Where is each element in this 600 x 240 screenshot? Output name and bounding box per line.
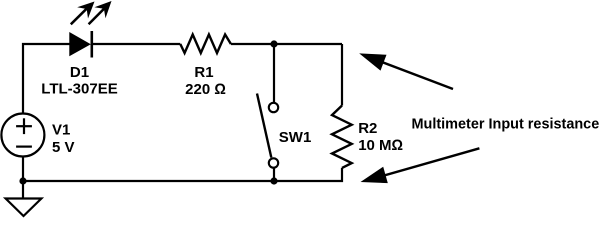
V1 plus sign xyxy=(16,118,32,134)
wire right branch top (corner down to R2) xyxy=(341,44,343,106)
node junction dot SW1/bottom rail xyxy=(270,177,277,184)
svg-text:V1: V1 xyxy=(52,122,70,139)
LED D1 emission arrow 1 xyxy=(71,2,95,25)
wire left branch top (from top-left corner down to V1) xyxy=(23,44,70,114)
wire from R1 to top-right corner xyxy=(231,43,342,45)
svg-text:220 Ω: 220 Ω xyxy=(185,81,226,98)
V1 minus sign xyxy=(16,146,32,148)
svg-text:SW1: SW1 xyxy=(279,129,312,146)
resistor R1 xyxy=(180,35,231,54)
svg-text:Multimeter Input resistance: Multimeter Input resistance xyxy=(412,117,600,133)
wire right branch bottom + bottom rail xyxy=(23,168,342,181)
wire from SW1 bottom terminal to bottom rail xyxy=(273,168,275,181)
wire from D1 cathode to R1 xyxy=(92,43,181,45)
annotation arrow top (pointing to top of R2 branch) xyxy=(359,53,453,89)
wire from V1 bottom to ground node xyxy=(22,157,24,182)
svg-text:R1: R1 xyxy=(194,64,213,81)
svg-text:R2: R2 xyxy=(358,120,377,137)
diode D1 cathode bar xyxy=(91,31,94,58)
resistor R2 xyxy=(332,106,352,168)
annotation arrow bottom (pointing to bottom of R2 branch) xyxy=(361,148,480,183)
ground stem xyxy=(22,181,24,199)
ground symbol xyxy=(6,199,42,217)
node junction dot at R1 / SW1 xyxy=(270,40,277,47)
svg-text:5 V: 5 V xyxy=(52,139,75,156)
switch SW1 bottom terminal xyxy=(269,158,278,167)
switch SW1 top terminal xyxy=(269,103,278,112)
diode D1 (anode triangle) xyxy=(70,33,90,56)
svg-text:D1: D1 xyxy=(70,64,89,81)
wire from junction down to SW1 top terminal xyxy=(273,44,275,102)
switch SW1 lever xyxy=(257,94,271,158)
svg-text:LTL-307EE: LTL-307EE xyxy=(41,81,117,98)
voltage source V1 circle xyxy=(1,114,44,157)
svg-text:10 MΩ: 10 MΩ xyxy=(358,137,403,154)
LED D1 emission arrow 2 xyxy=(89,1,112,24)
node junction dot ground xyxy=(19,177,26,184)
